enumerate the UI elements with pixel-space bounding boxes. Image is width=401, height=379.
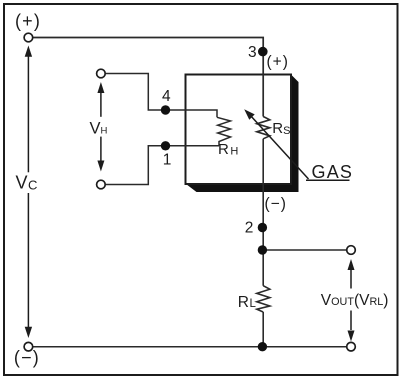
resistor RH (217, 117, 231, 146)
svg-text:GAS: GAS (312, 162, 354, 182)
wire: RL bottom to bottom rail (262, 312, 264, 347)
svg-text:2: 2 (245, 220, 254, 237)
svg-text:(−): (−) (14, 348, 40, 368)
svg-text:(−): (−) (265, 196, 287, 213)
resistor RL (257, 286, 270, 312)
wire: RS bottom down through node 2 to RL top (262, 139, 264, 286)
junction node on bottom rail (258, 342, 267, 351)
node 2 (258, 223, 267, 232)
svg-text:1: 1 (163, 152, 172, 169)
node 1 (161, 141, 170, 150)
terminal VOUT top (347, 246, 356, 255)
shadow (186, 75, 299, 193)
arrow VH (double headed) (97, 82, 104, 172)
terminal VH top (97, 69, 106, 78)
arrow VC (double headed) (25, 46, 32, 339)
sensor body (box with shadow) (186, 75, 299, 193)
wire: top rail from (+) to node 3 drop (33, 38, 263, 117)
node 3 (258, 47, 268, 57)
terminal (-) bottom-left (24, 342, 33, 351)
wire: VH top terminal to node 4 into box (106, 74, 217, 118)
node 4 (161, 105, 170, 114)
arrow GAS through RS (244, 109, 349, 180)
terminal VOUT bottom (347, 342, 356, 351)
svg-text:(+): (+) (267, 54, 289, 71)
terminal (+) top-left (24, 33, 33, 42)
arrow VOUT (double headed) (348, 259, 355, 342)
junction node below 2 (258, 245, 267, 254)
terminal VH bottom (97, 180, 106, 189)
svg-text:(+): (+) (15, 11, 41, 31)
svg-text:4: 4 (162, 88, 171, 105)
wire: RH bottom through node 1 to VH bottom terminal (105, 146, 219, 185)
svg-text:3: 3 (248, 44, 257, 61)
wire: bottom rail (33, 346, 347, 348)
resistor RS (257, 117, 270, 139)
wire: node 2 junction to VOUT top terminal (262, 249, 346, 251)
